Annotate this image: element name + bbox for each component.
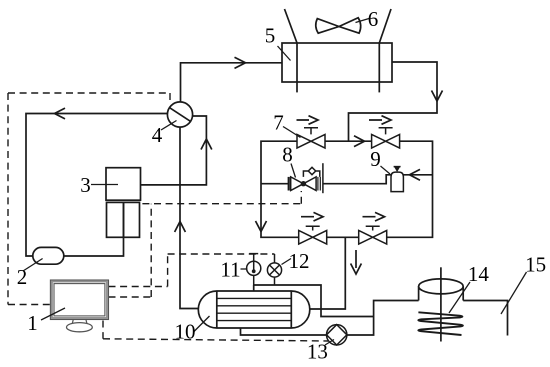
svg-text:11: 11 bbox=[220, 257, 240, 281]
svg-text:5: 5 bbox=[265, 24, 276, 48]
svg-text:15: 15 bbox=[525, 252, 546, 276]
svg-text:14: 14 bbox=[468, 262, 490, 286]
svg-text:1: 1 bbox=[27, 311, 38, 335]
svg-text:4: 4 bbox=[152, 123, 163, 147]
svg-text:13: 13 bbox=[307, 339, 328, 363]
svg-text:7: 7 bbox=[273, 111, 284, 135]
svg-text:2: 2 bbox=[17, 265, 28, 289]
svg-text:3: 3 bbox=[80, 173, 91, 197]
svg-text:12: 12 bbox=[289, 249, 310, 273]
svg-text:8: 8 bbox=[282, 143, 293, 167]
svg-text:10: 10 bbox=[175, 320, 196, 344]
svg-text:6: 6 bbox=[368, 7, 379, 31]
svg-text:9: 9 bbox=[370, 147, 381, 171]
